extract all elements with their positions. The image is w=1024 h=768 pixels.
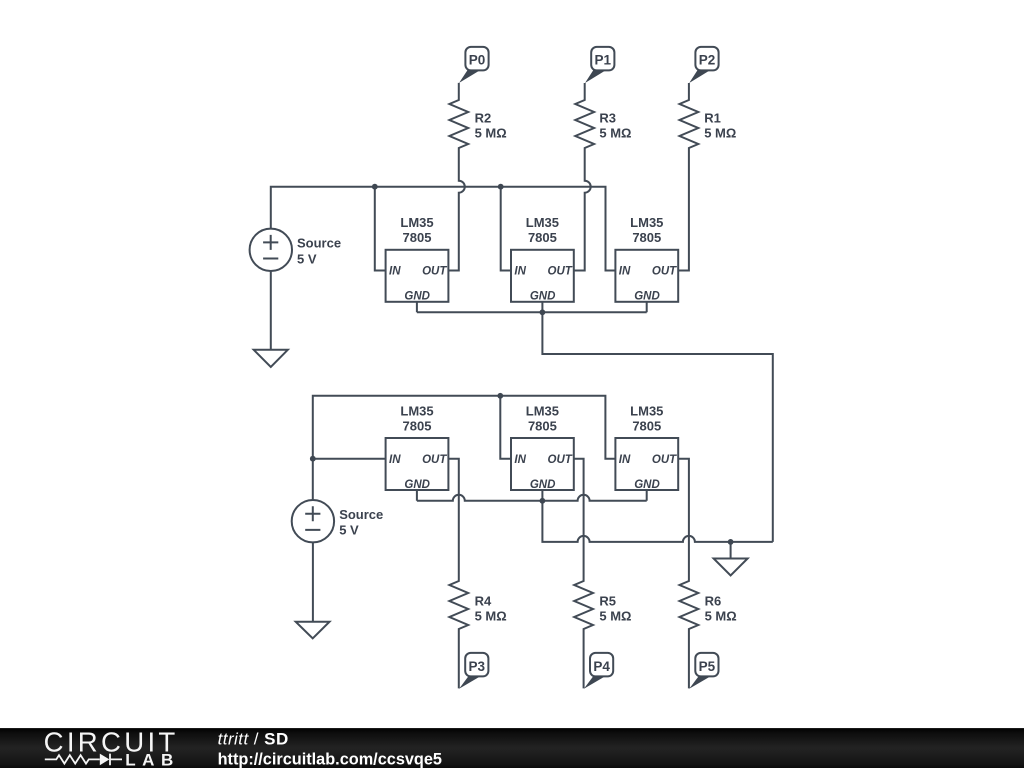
svg-text:ttritt / SD: ttritt / SD [218, 730, 289, 749]
svg-text:LM35: LM35 [400, 215, 433, 230]
svg-text:IN: IN [389, 266, 401, 278]
svg-text:LM35: LM35 [526, 215, 559, 230]
svg-text:GND: GND [634, 479, 660, 491]
svg-text:Source: Source [297, 235, 341, 250]
svg-text:P1: P1 [595, 53, 612, 68]
svg-text:R5: R5 [599, 593, 616, 608]
svg-text:5 MΩ: 5 MΩ [475, 608, 507, 623]
svg-text:7805: 7805 [632, 230, 661, 245]
svg-text:IN: IN [514, 266, 526, 278]
svg-text:P2: P2 [699, 53, 716, 68]
svg-text:GND: GND [530, 291, 556, 303]
svg-text:IN: IN [619, 266, 631, 278]
svg-text:5 MΩ: 5 MΩ [599, 126, 631, 141]
svg-text:5 MΩ: 5 MΩ [475, 126, 507, 141]
svg-text:5 MΩ: 5 MΩ [599, 608, 631, 623]
svg-text:OUT: OUT [548, 454, 573, 466]
svg-text:GND: GND [530, 479, 556, 491]
svg-text:R2: R2 [475, 111, 492, 126]
svg-text:OUT: OUT [652, 454, 677, 466]
svg-text:7805: 7805 [528, 230, 557, 245]
svg-text:LM35: LM35 [400, 403, 433, 418]
svg-text:P4: P4 [593, 659, 610, 674]
svg-text:5 MΩ: 5 MΩ [705, 608, 737, 623]
svg-text:7805: 7805 [403, 230, 432, 245]
svg-text:GND: GND [404, 479, 430, 491]
svg-text:IN: IN [619, 454, 631, 466]
svg-text:LM35: LM35 [630, 215, 663, 230]
svg-text:GND: GND [634, 291, 660, 303]
svg-text:IN: IN [389, 454, 401, 466]
svg-text:R3: R3 [599, 111, 616, 126]
svg-text:OUT: OUT [652, 266, 677, 278]
svg-text:http://circuitlab.com/ccsvqe5: http://circuitlab.com/ccsvqe5 [218, 751, 442, 768]
svg-text:P3: P3 [469, 659, 486, 674]
svg-text:P5: P5 [699, 659, 716, 674]
svg-text:LM35: LM35 [526, 403, 559, 418]
svg-text:Source: Source [339, 507, 383, 522]
svg-text:OUT: OUT [422, 454, 447, 466]
svg-text:5 V: 5 V [297, 251, 317, 266]
svg-text:7805: 7805 [403, 418, 432, 433]
svg-text:5 MΩ: 5 MΩ [704, 126, 736, 141]
svg-text:OUT: OUT [422, 266, 447, 278]
svg-text:IN: IN [514, 454, 526, 466]
svg-text:R1: R1 [704, 111, 721, 126]
svg-text:R4: R4 [475, 593, 492, 608]
svg-text:R6: R6 [705, 593, 722, 608]
svg-text:LM35: LM35 [630, 403, 663, 418]
svg-text:5 V: 5 V [339, 523, 359, 538]
svg-text:P0: P0 [469, 53, 486, 68]
svg-text:OUT: OUT [548, 266, 573, 278]
svg-text:7805: 7805 [528, 418, 557, 433]
svg-text:GND: GND [404, 291, 430, 303]
svg-text:7805: 7805 [632, 418, 661, 433]
svg-text:LAB: LAB [125, 751, 179, 768]
